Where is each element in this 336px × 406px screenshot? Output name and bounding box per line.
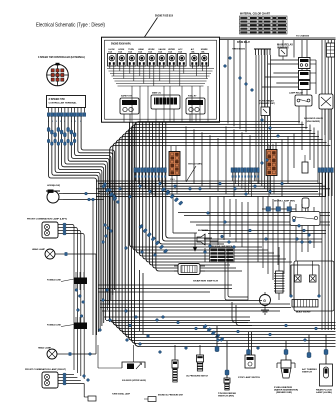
svg-text:FUEL/WATER: FUEL/WATER (274, 386, 293, 389)
right top verticals (228, 40, 246, 133)
svg-text:OIL PRESSURE SWITCH: OIL PRESSURE SWITCH (186, 376, 209, 378)
svg-text:LAMP RELAY: LAMP RELAY (289, 92, 304, 95)
relay block 1 (299, 58, 317, 69)
head lamp LH (38, 300, 96, 359)
svg-text:SOLENOID (UPPER VALVE): SOLENOID (UPPER VALVE) (122, 379, 146, 382)
relay module K3 (186, 96, 205, 123)
front combination lamp right (25, 368, 84, 388)
svg-text:FRONT COMBINATION LAMP (RIGHT): FRONT COMBINATION LAMP (RIGHT) (25, 368, 66, 371)
strip B tail wires (232, 172, 258, 196)
bottom small connector (144, 397, 156, 402)
main relay (279, 40, 287, 60)
bus band 1 to bottom bus (110, 122, 336, 347)
diagonal connector chain upper (161, 187, 183, 205)
inter-band verticals (186, 126, 250, 196)
alternator (260, 292, 271, 306)
battery terminal post 1 (295, 261, 302, 282)
fuse box outline (102, 37, 220, 122)
water temp sensor (226, 341, 228, 370)
fusible link 1 (47, 272, 87, 290)
svg-text:3 SPEED T/M: 3 SPEED T/M (49, 98, 65, 101)
svg-text:ENGINE ROOM HARN.: ENGINE ROOM HARN. (111, 43, 131, 46)
strip B id labels (232, 175, 259, 177)
svg-text:BUZZER: BUZZER (198, 230, 209, 232)
right mid bundle (256, 55, 271, 194)
svg-text:15A: 15A (178, 50, 182, 53)
small relay near strip B (302, 155, 308, 173)
stop lamp switch (238, 332, 261, 379)
svg-text:REAR FLOOD: REAR FLOOD (316, 389, 333, 392)
svg-text:HORN(LOW): HORN(LOW) (47, 185, 60, 187)
svg-text:MAIN C/U: MAIN C/U (152, 92, 162, 95)
buzzer (173, 196, 209, 251)
svg-text:15A: 15A (168, 50, 172, 53)
terminal pins (49, 108, 85, 113)
relay box mid right (290, 212, 320, 226)
head lamp RH (32, 200, 96, 336)
battery terminal post 2 (310, 261, 317, 282)
relay module K2 connector (151, 92, 180, 123)
svg-text:15A: 15A (191, 50, 195, 53)
diagonal connector chain bus (203, 324, 224, 341)
alternator area bus corners (232, 302, 252, 326)
terminal pin id strip (47, 113, 85, 117)
starter switch (174, 264, 219, 283)
svg-text:(WATER SEDIMENTER): (WATER SEDIMENTER) (274, 389, 298, 392)
svg-text:LAMP (LH/RH): LAMP (LH/RH) (316, 391, 332, 394)
battery enclosure box (294, 261, 320, 311)
connector strip C (318, 168, 333, 173)
top right connector grid (327, 43, 335, 57)
lower horizontal runs (98, 285, 291, 321)
orange connector tail wires (171, 144, 274, 196)
work lamp chain (262, 198, 309, 213)
relay feed verticals (294, 40, 330, 140)
svg-text:15A: 15A (108, 50, 112, 53)
fuse box internal wiring (107, 68, 214, 87)
solenoid upper valve (98, 345, 146, 382)
svg-text:FUSIBLE LINK: FUSIBLE LINK (47, 280, 61, 282)
flasher relay (319, 94, 333, 109)
svg-text:FRONT COMBINATION LAMP (LEFT): FRONT COMBINATION LAMP (LEFT) (27, 218, 67, 221)
svg-text:SAFETY RY: SAFETY RY (121, 95, 133, 98)
strip A tail wires (135, 172, 165, 196)
svg-text:SOLENOID VALVE: SOLENOID VALVE (304, 117, 324, 120)
far right bundle (322, 40, 334, 330)
svg-text:(RESERVOIR): (RESERVOIR) (276, 392, 292, 394)
svg-text:A/C THERMO: A/C THERMO (302, 368, 318, 371)
relay block 3 (299, 81, 317, 90)
bottom left connector (84, 384, 96, 402)
fuse F10 SPARE (200, 48, 209, 68)
svg-text:STOP LAMP SWITCH: STOP LAMP SWITCH (238, 376, 261, 379)
relay block wires to bundle (262, 60, 299, 87)
svg-text:(FLASHER UNIT): (FLASHER UNIT) (259, 102, 275, 105)
svg-text:15A: 15A (128, 50, 132, 53)
bus band 1 right drops (270, 122, 318, 197)
fuse F1 GLOW (108, 49, 117, 68)
svg-text:TURN SIGNAL LAMP: TURN SIGNAL LAMP (112, 393, 131, 396)
rear flood lamp (316, 335, 333, 394)
regulator (274, 247, 285, 293)
controller harness wires to left bundle (49, 116, 115, 335)
svg-text:15A: 15A (138, 50, 142, 53)
wire color legend table (240, 12, 288, 35)
svg-text:G: G (263, 299, 266, 303)
fuse F6 GAUGE (158, 48, 167, 68)
bottom center verticals (140, 270, 144, 334)
strip C tail wires (319, 172, 332, 196)
multi pin connector (254, 49, 271, 55)
svg-text:HEAD LAMP: HEAD LAMP (38, 347, 52, 350)
svg-text:BATTERY: BATTERY (296, 311, 312, 314)
svg-text:SWITCH: SWITCH (302, 372, 313, 374)
bus band 3 right half (178, 213, 330, 243)
horn low (46, 185, 63, 203)
svg-text:TURN SIGNAL LAMP SWITCH: TURN SIGNAL LAMP SWITCH (210, 245, 233, 248)
turn relay flasher unit (261, 49, 270, 124)
svg-text:VEHICLE HARN.: VEHICLE HARN. (188, 163, 202, 166)
svg-text:TO CHASSIS: TO CHASSIS (296, 35, 310, 38)
drop x217 (215, 326, 219, 352)
svg-text:3 SPEED T/M CONTROLLER (EXTERN: 3 SPEED T/M CONTROLLER (EXTERNAL) (38, 56, 85, 59)
connector strip A (134, 168, 166, 173)
svg-text:STARTER SWITCH: STARTER SWITCH (193, 280, 219, 283)
svg-text:HEAD LAMP: HEAD LAMP (32, 248, 46, 251)
fuse box column wires (132, 86, 208, 122)
svg-text:Electrical Schematic (Type : D: Electrical Schematic (Type : Diesel) (36, 23, 105, 29)
svg-text:(UNLOADER): (UNLOADER) (306, 120, 320, 123)
fuel water separator (274, 341, 298, 394)
round controller connector (47, 63, 69, 86)
diagonal connector chain left (102, 184, 117, 201)
svg-text:SPARE RELAY: SPARE RELAY (237, 41, 250, 44)
fuse F8 ACC (178, 48, 187, 68)
diagonal connector chain center (139, 224, 168, 253)
svg-text:WORK LAMP (RH): WORK LAMP (RH) (274, 200, 295, 203)
svg-text:MATERIAL COLOR CHART: MATERIAL COLOR CHART (240, 12, 270, 16)
switch data table (210, 245, 235, 262)
svg-text:TURN/HAZARD: TURN/HAZARD (232, 48, 246, 51)
relay module K1 (120, 95, 139, 123)
front combination lamp left (27, 218, 84, 380)
svg-text:ENGINE FUSE BOX: ENGINE FUSE BOX (155, 14, 173, 18)
left frame lines near alternator (225, 250, 248, 300)
battery body (292, 300, 318, 314)
wire id labels (48, 121, 82, 123)
fuse F9 A/C (190, 48, 199, 68)
svg-text:15A: 15A (201, 50, 205, 53)
fuse F4 HEAD (138, 48, 147, 68)
fuse F5 WORK (148, 49, 157, 68)
ground symbol alternator (261, 293, 279, 314)
harness inline connectors (47, 128, 76, 146)
engine oil pressure unit (158, 345, 184, 397)
top rail wire (142, 37, 336, 39)
right center verticals (205, 196, 314, 300)
svg-text:TURN RELAY: TURN RELAY (259, 100, 275, 103)
bottom bus stub from band2 (109, 196, 111, 322)
connector strip B (231, 168, 259, 173)
vehicle harness connector A (169, 152, 180, 181)
svg-text:15A: 15A (118, 50, 122, 53)
fuse F7 WIPER (168, 49, 177, 68)
fusible link 2 (47, 317, 87, 329)
vehicle harness connector B (266, 150, 277, 176)
svg-text:CONTROLLER TERMINAL: CONTROLLER TERMINAL (49, 101, 78, 104)
svg-text:15A: 15A (158, 50, 162, 53)
battery frame (291, 265, 319, 297)
center bundle verticals (130, 122, 293, 271)
lamp relay (295, 95, 312, 106)
wire junctions (75, 57, 320, 382)
terminal label callout (186, 163, 202, 183)
svg-text:15A: 15A (148, 50, 152, 53)
air heater drop (302, 335, 318, 374)
relay block 2 (299, 71, 317, 80)
strip A id labels (135, 175, 166, 177)
fuse F2 HORN (118, 49, 127, 68)
svg-text:FUEL RY: FUEL RY (188, 96, 197, 98)
fuse F3 TURN (128, 49, 137, 68)
oil pressure switch (186, 345, 209, 378)
svg-text:SWITCH (RH): SWITCH (RH) (218, 396, 234, 398)
svg-text:FUSIBLE LINK: FUSIBLE LINK (47, 325, 61, 327)
bus band 2 (96, 181, 330, 197)
band2 left corners (63, 194, 104, 200)
controller terminal box (47, 96, 86, 108)
svg-text:ENGINE OIL PRESSURE UNIT: ENGINE OIL PRESSURE UNIT (158, 395, 184, 397)
callout leader line (145, 18, 158, 38)
